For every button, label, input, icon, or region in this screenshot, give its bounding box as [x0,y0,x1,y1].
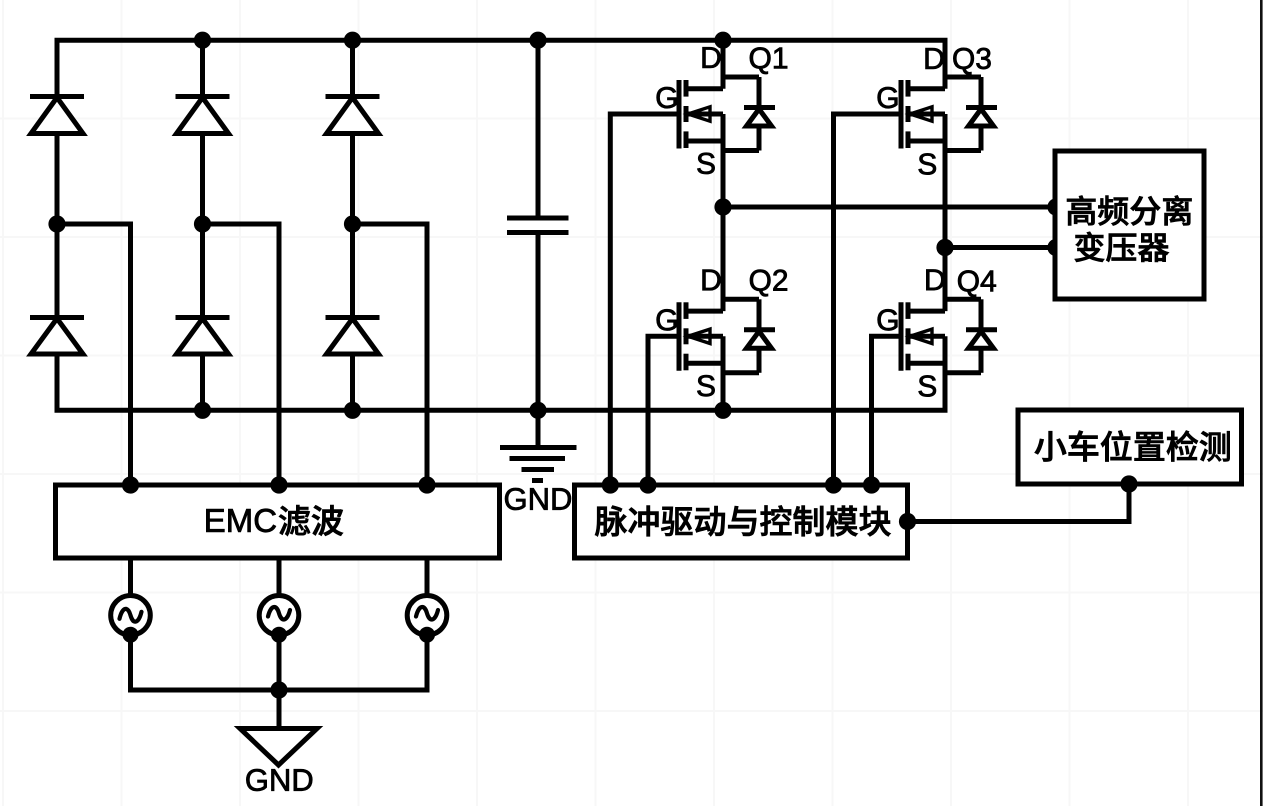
wire: top DC+ rail [55,38,948,43]
label: pin S of Q4 [919,375,936,396]
node: bottom rail / phase C column [344,402,360,418]
node: bottom rail / Q2 source [715,402,731,418]
diode: body diode of Q2 [723,299,775,373]
diode: rectifier upper phase A [30,97,84,134]
node: top rail / phase C column [344,32,360,48]
AC source phase B [259,557,299,690]
node: neutral bus center [271,682,287,698]
label: pin G of Q3 [878,87,898,108]
node: EMC input A [122,477,138,493]
label: 脉冲驱动与控制模块 [595,506,890,537]
diode: body diode of Q3 [945,77,997,151]
wire: phase A tap to EMC filter [57,224,131,485]
label: EMC滤波 [206,509,275,532]
transistor Q1 (MOSFET, high side left) [679,40,723,207]
node: Q3-Q4 midpoint [937,239,953,255]
node: bottom rail / ground branch [530,402,546,418]
wire: phase A column middle [55,134,60,318]
wire: phase B tap to EMC filter [203,224,280,485]
wire: phase B column upper [200,40,205,96]
diode: rectifier lower phase C [326,318,380,355]
node: driver output to position detector [899,513,915,529]
wire: phase C column lower [350,354,355,410]
node: driver input Q4 [863,477,879,493]
wire: bridge output B to transformer [945,245,1056,250]
label: Q4 [958,270,996,297]
label: pin S of Q2 [697,375,714,396]
label: pin D of Q4 [926,270,944,291]
label: pin D of Q2 [703,270,721,291]
node: driver input Q3 [825,477,841,493]
label: pin S of Q3 [919,153,936,174]
wire: phase C column upper [350,40,355,96]
wire: Q2 gate lead and feed to driver [648,336,679,485]
node: transformer input A [1048,199,1064,215]
wire: phase C tap to EMC filter [353,224,428,485]
diode: body diode of Q1 [723,77,775,151]
wire: neutral to chassis ground [277,690,282,729]
ground: DC bus earth symbol [500,410,577,480]
capacitor: DC bus filter [507,40,569,410]
AC source phase A [111,557,151,690]
label: pin G of Q2 [657,309,677,330]
wire: bridge output A to transformer [723,205,1056,210]
label: pin D of Q3 [926,48,944,69]
wire: phase A column upper [55,40,60,96]
block: 脉冲驱动与控制模块 (pulse drive and control module) [575,485,908,558]
node: phase A mid junction [49,216,65,232]
node: driver input Q2 [640,477,656,493]
node: phase B mid junction [194,216,210,232]
label: 变压器 [1075,232,1169,262]
node: top rail / capacitor branch [530,32,546,48]
label: pin S of Q1 [697,153,714,174]
diode: rectifier upper phase C [326,97,380,134]
label: pin G of Q1 [657,87,677,108]
wire: phase C column middle [350,134,355,318]
node: bottom rail / phase B column [194,402,210,418]
node: transformer input B [1048,239,1064,255]
label: GND (DC bus) [505,488,571,510]
label: Q3 [953,48,990,75]
wire: bottom DC- rail [55,408,948,413]
wire: phase B column lower [200,354,205,410]
node: phase C mid junction [344,216,360,232]
label: Q2 [750,270,787,297]
node: EMC input B [271,477,287,493]
ground: chassis ground triangle [240,729,317,766]
AC source phase C [407,557,447,690]
diode: rectifier upper phase B [176,97,230,134]
node: position detector bottom [1121,476,1137,492]
diode: body diode of Q4 [945,299,997,373]
label: GND (chassis) [246,769,312,791]
wire: AC neutral bus [128,688,430,693]
transistor Q2 (MOSFET, low side left) [679,207,723,410]
block: 小车位置检测 (trolley position detection) [1018,410,1242,484]
node: top rail / Q1 drain [715,32,731,48]
label: pin D of Q1 [703,47,721,68]
node: Q1-Q2 midpoint [715,199,731,215]
label: Q1 [750,47,787,74]
transistor Q4 (MOSFET, low side right) [901,248,945,411]
block: 高频分离变压器 (HF isolation transformer) [1055,151,1204,299]
label: 高频分离 [1067,196,1191,226]
wire: phase A column lower [55,354,60,410]
label: 小车位置检测 [1035,431,1230,462]
wire: Q4 gate lead and feed to driver [872,336,902,485]
wire: Q3 gate lead and feed to driver [834,114,902,485]
diode: rectifier lower phase A [30,318,84,355]
node: driver input Q1 [602,477,618,493]
wire: phase B column middle [200,134,205,318]
wire: driver to position detector [908,484,1130,522]
wire: Q1 gate lead and feed to driver [610,114,679,485]
label: pin G of Q4 [878,309,898,330]
diode: rectifier lower phase B [176,318,230,355]
block: EMC滤波 (EMC filter) [56,485,500,558]
node: top rail / phase B column [194,32,210,48]
transistor Q3 (MOSFET, high side right) [901,40,945,247]
node: EMC input C [419,477,435,493]
